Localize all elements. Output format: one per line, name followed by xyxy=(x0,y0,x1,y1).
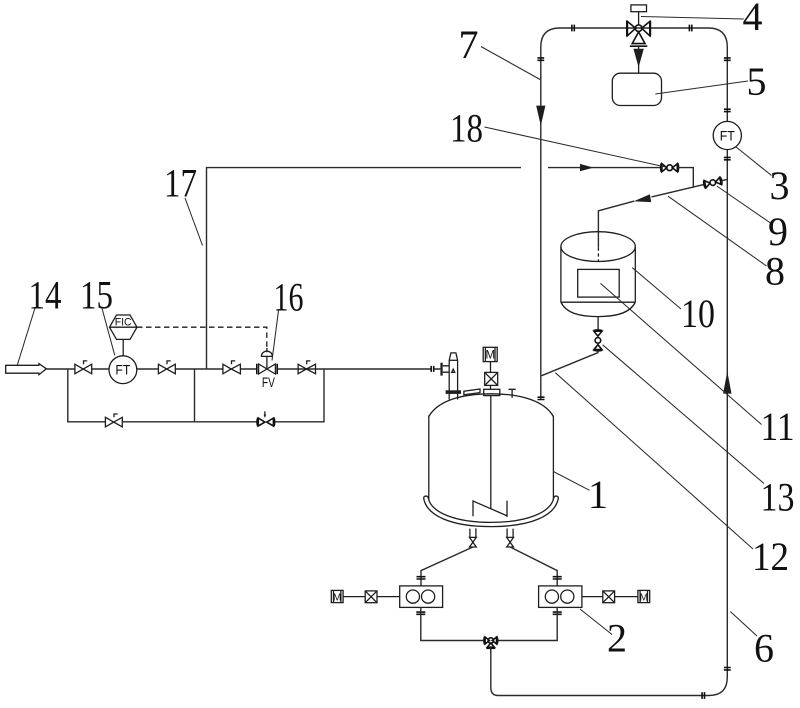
svg-text:18: 18 xyxy=(450,106,483,151)
three-way discharge valve xyxy=(484,637,498,653)
link FIC to FT xyxy=(122,339,124,355)
svg-text:M: M xyxy=(486,349,496,361)
svg-text:8: 8 xyxy=(765,249,785,294)
three-way valve 4 with hand wheel xyxy=(627,5,651,46)
agitator impeller xyxy=(473,500,507,517)
svg-text:15: 15 xyxy=(80,273,113,318)
label 5 xyxy=(747,59,767,104)
label 10 xyxy=(681,291,715,336)
flange tick on right vertical upper xyxy=(724,58,731,60)
solid arrow below valve 4 xyxy=(633,49,643,68)
pipe from valve 18 to mix point xyxy=(679,168,694,188)
leader for 2 xyxy=(580,609,612,635)
label 12 xyxy=(752,534,789,579)
svg-text:FIC: FIC xyxy=(115,316,132,328)
svg-text:11: 11 xyxy=(761,404,795,449)
hand valve V2 xyxy=(158,361,175,374)
flow arrow up on line 6 xyxy=(723,371,731,393)
label 13 xyxy=(761,475,795,520)
flange tick below FT xyxy=(724,157,731,159)
label 1 xyxy=(588,472,608,517)
svg-text:2: 2 xyxy=(607,616,627,661)
leader for 9 xyxy=(717,186,771,223)
pump 2 left (gear pump) xyxy=(400,586,443,608)
flow arrow down on line 7 xyxy=(536,106,545,126)
valve 18 xyxy=(661,163,679,172)
flange tick on top line left xyxy=(572,25,574,32)
svg-text:FV: FV xyxy=(262,374,275,390)
svg-text:12: 12 xyxy=(752,534,789,579)
flow arrow right on line 17 xyxy=(580,164,594,171)
bypass piping xyxy=(68,369,324,422)
label 15 xyxy=(80,273,113,318)
leader for 6 xyxy=(730,612,757,637)
flow transmitter FT 15 xyxy=(109,356,137,384)
pump discharge piping right xyxy=(497,607,557,640)
dashed control signal line xyxy=(137,327,267,352)
discharge flange tick right xyxy=(553,612,562,614)
dashed pipe inside tank 10 xyxy=(597,248,599,262)
shaft lines right xyxy=(582,596,638,598)
leader for 8 xyxy=(668,196,767,266)
svg-text:FT: FT xyxy=(720,129,735,144)
line from valve 4 down to tank 5 xyxy=(638,46,640,73)
flange tick bottom line xyxy=(702,692,704,699)
svg-text:6: 6 xyxy=(754,626,774,671)
shaft lines left xyxy=(343,596,400,598)
pipe loop 6 (recirculation line, right side big loop) xyxy=(491,28,728,696)
pump discharge piping left xyxy=(421,607,485,640)
valve 13 (vertical, below tank 10) xyxy=(594,330,603,351)
svg-text:M: M xyxy=(333,593,341,604)
label 16 xyxy=(274,275,304,320)
leader for 7 xyxy=(481,47,541,81)
motor M box left xyxy=(331,590,343,603)
agitator motor M xyxy=(483,347,497,361)
leader for 13 xyxy=(603,345,764,484)
flange tick on top line right xyxy=(689,25,691,32)
svg-text:3: 3 xyxy=(770,163,790,208)
reactor vessel 1 xyxy=(424,394,559,527)
leader for 11 xyxy=(601,283,762,424)
flange tick at reactor inlet xyxy=(538,397,545,399)
bottom valve right xyxy=(507,537,514,547)
leader for 12 xyxy=(555,373,753,549)
hand valve V3 xyxy=(223,361,241,374)
flow transmitter FT (item 3) xyxy=(713,121,741,149)
svg-text:FT: FT xyxy=(115,363,130,378)
leader for 10 xyxy=(632,268,681,309)
small nozzle on dome xyxy=(464,389,480,395)
label 2 xyxy=(607,616,627,661)
pipe 12 (valve 13 to reactor) xyxy=(542,351,598,376)
flow arrow on pipe 8 xyxy=(634,194,651,202)
leader for 16 xyxy=(272,311,279,361)
bypass valve V6 (drain) xyxy=(257,411,275,426)
feed arrow 14 xyxy=(6,364,47,375)
leader for 18 xyxy=(485,127,666,167)
pump suction piping right xyxy=(510,547,557,586)
heater 11 inside tank 10 xyxy=(578,269,620,297)
leader for 17 xyxy=(185,198,203,246)
svg-text:17: 17 xyxy=(164,161,197,206)
leader for 4 xyxy=(641,17,744,20)
leader for 15 xyxy=(102,308,115,355)
storage tank 10 xyxy=(561,232,635,317)
svg-text:10: 10 xyxy=(681,291,715,336)
leader for 5 xyxy=(655,81,748,94)
svg-text:5: 5 xyxy=(747,59,767,104)
pump suction piping left xyxy=(421,547,473,586)
leader for 1 xyxy=(553,472,589,491)
bottom valve left xyxy=(470,537,477,547)
agitator shaft xyxy=(490,362,492,509)
flange tick above FT xyxy=(724,109,731,111)
svg-text:16: 16 xyxy=(274,275,304,320)
tank 5 (rounded box) xyxy=(612,73,661,105)
FIC controller hexagon xyxy=(110,315,138,339)
outlet pipe of tank 10 xyxy=(597,317,599,331)
control valve FV 16 xyxy=(257,348,277,390)
label 6 xyxy=(754,626,774,671)
pipe 8 (diagonal from loop to tank 10) xyxy=(598,179,727,247)
valve 9 (tilted) xyxy=(703,177,723,189)
leader for 3 xyxy=(736,147,772,176)
svg-text:9: 9 xyxy=(768,209,788,254)
label 7 xyxy=(459,22,479,67)
motor M box right xyxy=(638,590,650,603)
discharge flange tick left xyxy=(416,612,425,614)
hand valve V4 xyxy=(298,361,315,374)
label 18 xyxy=(450,106,483,151)
suction flange tick left xyxy=(417,577,426,579)
label 9 xyxy=(768,209,788,254)
bypass valve V5 xyxy=(105,414,122,427)
agitator flange on dome xyxy=(484,389,500,395)
svg-text:4: 4 xyxy=(743,0,763,39)
reactor bottom outlet stubs xyxy=(470,528,513,537)
small T nozzle on dome xyxy=(509,389,516,398)
svg-text:13: 13 xyxy=(761,475,795,520)
svg-text:7: 7 xyxy=(459,22,479,67)
flange tick right vertical bottom xyxy=(724,668,731,670)
inlet flange pair at reactor nozzle xyxy=(431,366,434,372)
flange tick on left vertical xyxy=(537,58,544,60)
agitator gearbox (X box) xyxy=(485,372,498,385)
label 11 xyxy=(761,404,795,449)
svg-text:M: M xyxy=(640,593,648,604)
svg-text:14: 14 xyxy=(29,273,62,318)
suction flange tick right xyxy=(553,577,562,579)
label 17 xyxy=(164,161,197,206)
reactor side nozzle (chimney) xyxy=(446,353,461,400)
reactor nozzle flange block xyxy=(440,363,449,376)
svg-text:1: 1 xyxy=(588,472,608,517)
label 3 xyxy=(770,163,790,208)
hand valve V1 xyxy=(75,361,92,374)
coupling X box right xyxy=(603,591,615,603)
coupling X box left xyxy=(365,591,377,603)
pump 2 right (gear pump) xyxy=(539,586,582,608)
label 4 xyxy=(743,0,763,39)
horizontal line to valve 18 (after crossing gap) xyxy=(548,167,661,169)
label 8 xyxy=(765,249,785,294)
main feed line xyxy=(46,368,440,370)
label 14 xyxy=(29,273,62,318)
gas feed line 17 vertical and horizontal xyxy=(207,168,522,369)
leader for 14 xyxy=(17,308,35,365)
